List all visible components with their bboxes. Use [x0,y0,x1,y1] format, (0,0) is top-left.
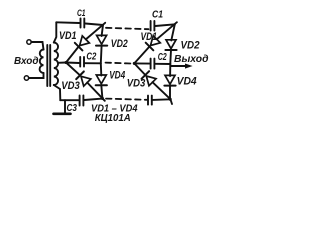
diode VD4 (left cell, vertical) [96,63,107,98]
svg-text:VD1: VD1 [59,30,77,42]
wire input bottom lead [29,73,44,78]
svg-text:КЦ101А: КЦ101А [95,112,131,124]
transformer T1 primary winding [40,50,44,74]
node B (left bottom junction) [101,97,104,100]
diode VD1 (right cell, on up diagonal) [134,22,177,63]
wire dashed top link [106,28,149,29]
svg-text:VD4: VD4 [109,69,125,81]
capacitor C1 (right) [151,21,155,31]
transformer T1 core [46,45,48,86]
wire input top lead [31,42,43,50]
transformer T1 secondary winding [54,43,58,86]
svg-text:C1: C1 [77,8,86,19]
wire secondary top to bridge corner [54,22,57,42]
node A (left mid junction) [64,61,67,64]
capacitor C2 (right) [134,59,170,69]
svg-text:VD3: VD3 [61,80,80,92]
wire C1 right to top node [155,24,174,26]
node D (right bottom junction) [169,98,172,101]
wire bottom rail left [60,99,78,101]
wire C1 to top node [85,24,103,26]
wire C3 to bottom node [84,99,102,100]
svg-text:VD4: VD4 [177,75,197,87]
capacitor C3 [80,96,84,106]
output arrow [170,64,192,69]
svg-text:C1: C1 [152,9,163,21]
wire bottom cap to right bottom node [148,96,172,105]
capacitor C2 (left) [66,57,101,67]
svg-text:C2: C2 [86,52,96,63]
wire dashed bottom link [106,99,147,100]
wire dashed middle link [106,63,134,64]
diode VD1 (left cell, on up diagonal) [66,23,105,63]
wire secondary center tap [58,62,66,64]
svg-text:VD1: VD1 [141,31,158,43]
input terminal bottom [24,76,28,80]
node C (right mid junction) [133,62,136,65]
diode VD2 (left cell, vertical) [96,25,107,63]
diode VD3 (left cell, on down diagonal) [66,63,105,101]
svg-text:C3: C3 [67,102,78,114]
svg-text:VD2: VD2 [111,38,128,50]
svg-text:Вход: Вход [14,56,39,67]
svg-text:Выход: Выход [174,53,209,65]
wire secondary bottom lead [54,85,61,100]
svg-text:VD2: VD2 [181,40,200,52]
ground [54,100,71,114]
input terminal top [27,40,31,44]
svg-text:VD3: VD3 [127,78,146,90]
capacitor C1 (left) [81,19,85,28]
diode VD3 (right cell, on down diagonal) [134,63,170,98]
svg-text:C2: C2 [158,52,167,63]
diode VD2 (right cell, vertical) [165,24,176,63]
diode VD4 (right cell, vertical) [164,64,175,99]
wire top rail left [56,21,79,24]
